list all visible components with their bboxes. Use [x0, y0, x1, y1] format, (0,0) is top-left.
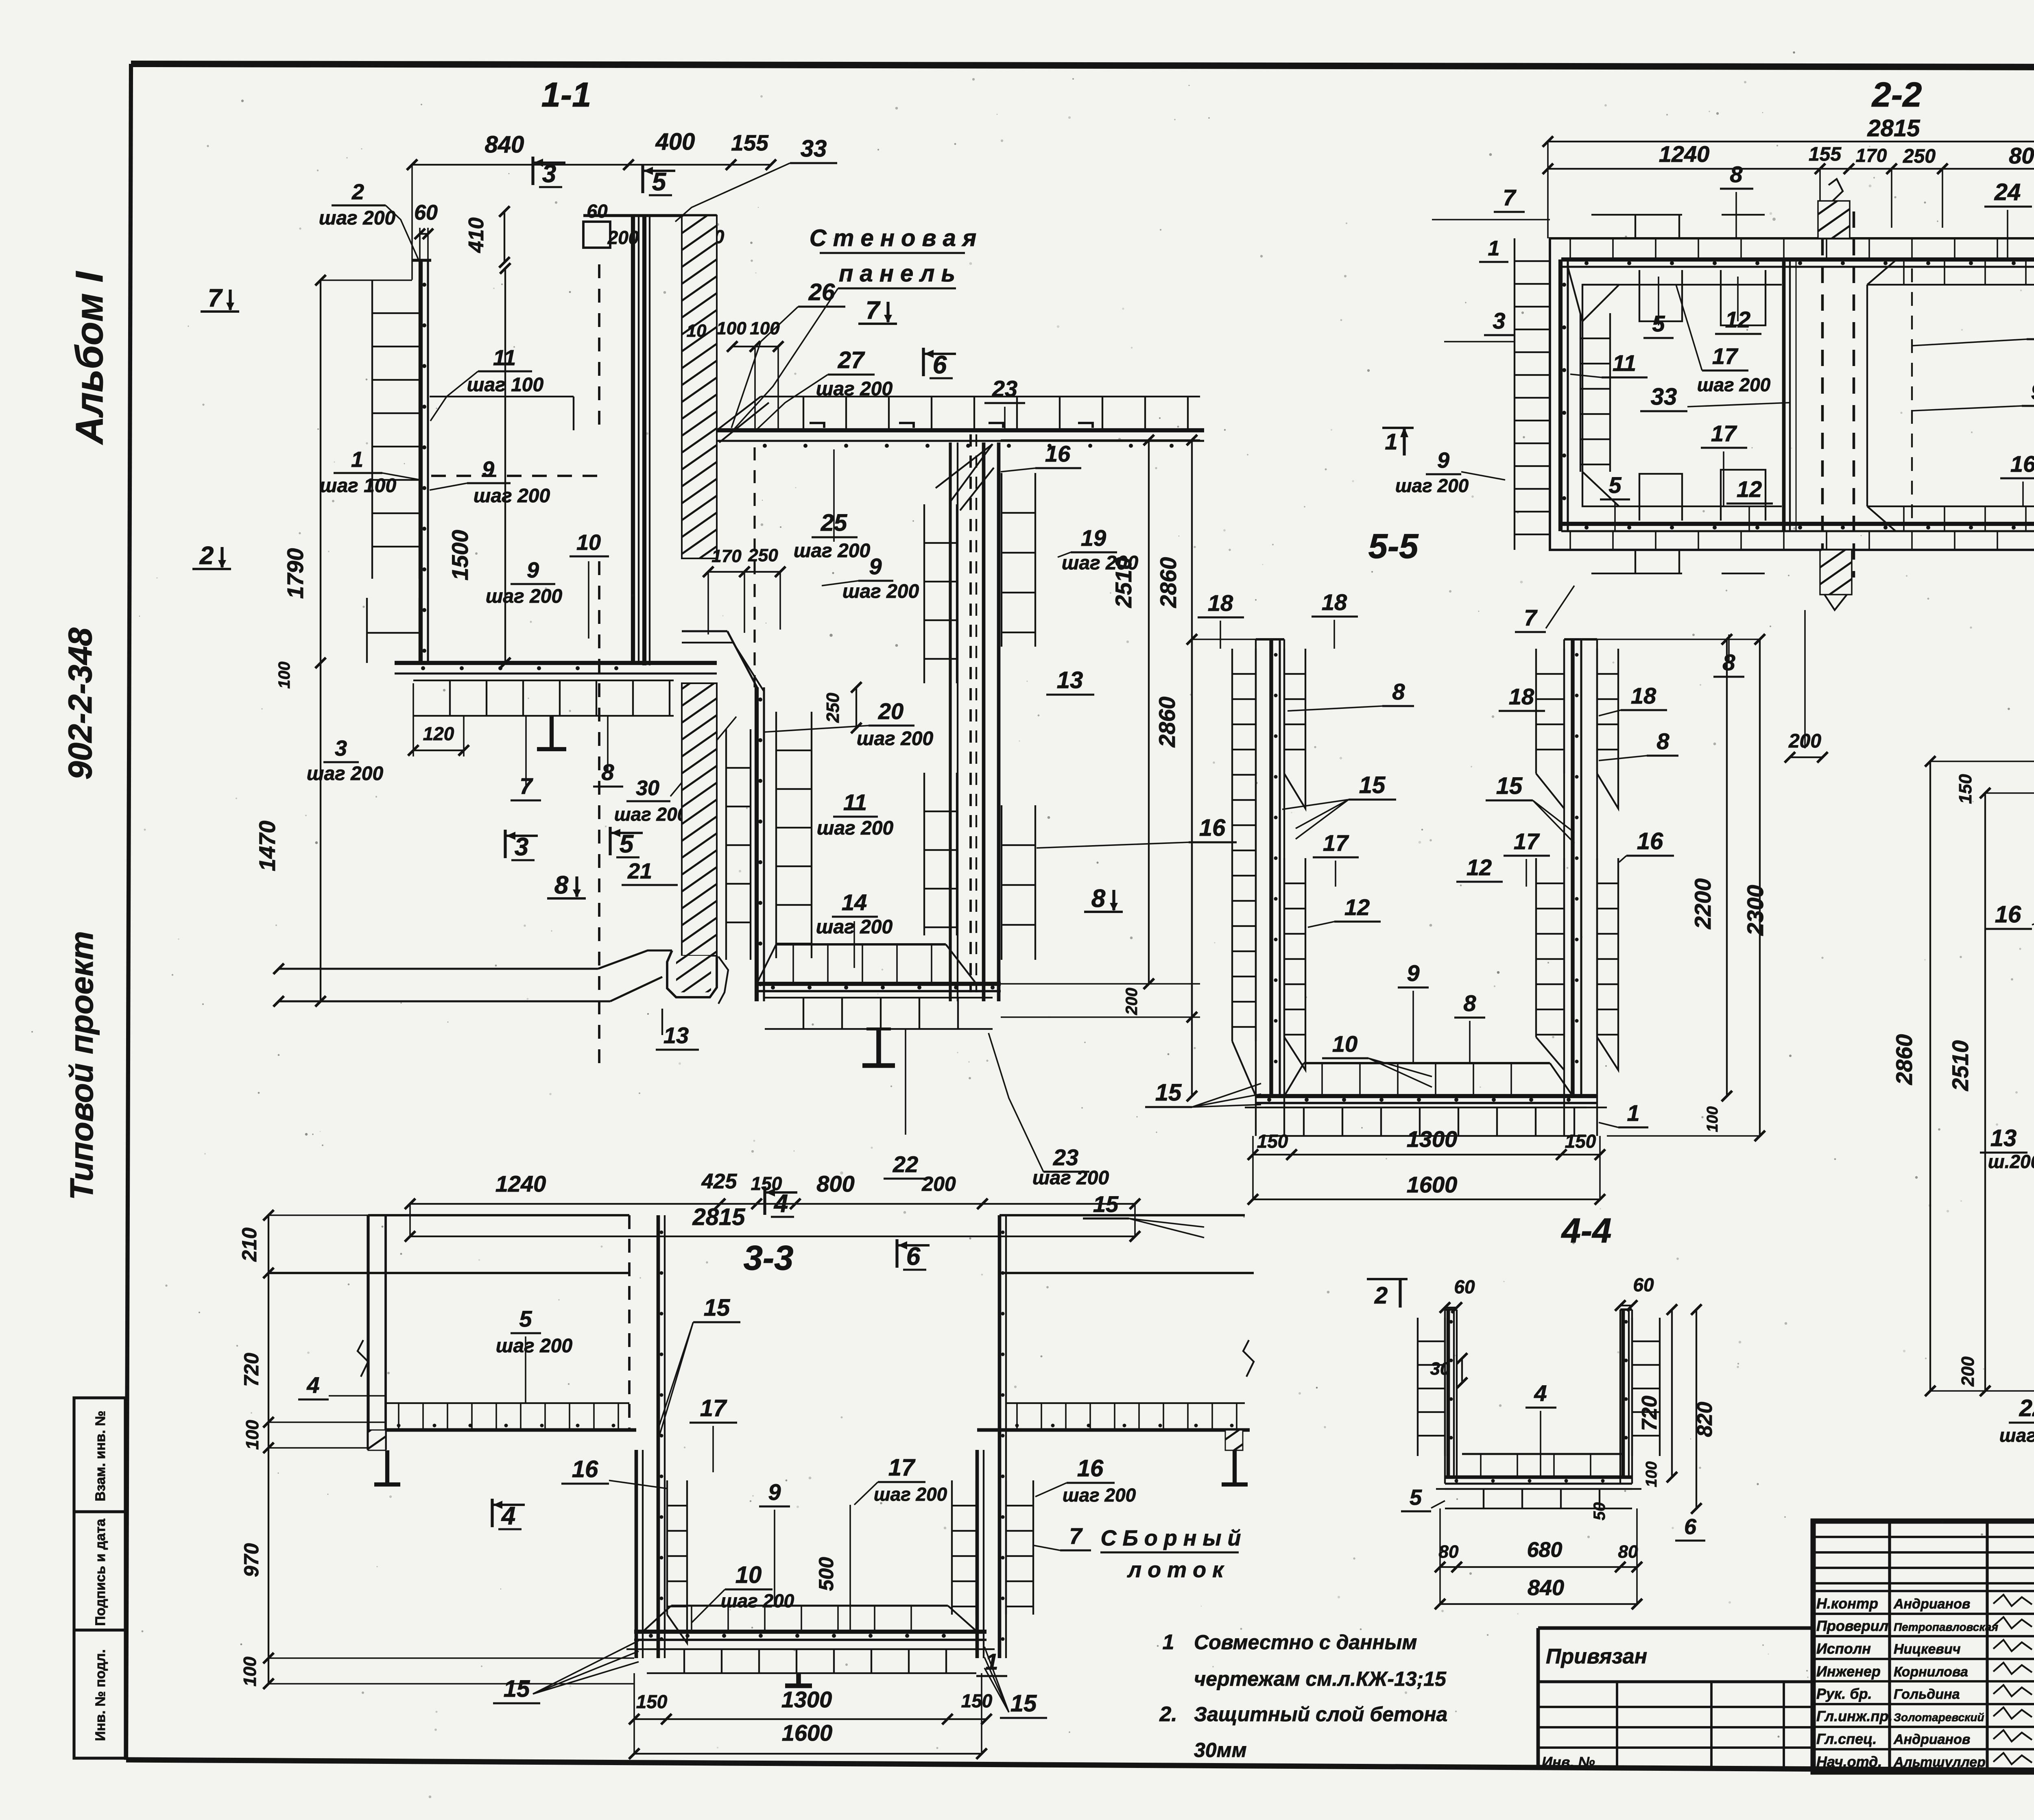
svg-text:3-3: 3-3	[744, 1239, 794, 1277]
svg-text:680: 680	[1527, 1538, 1563, 1562]
svg-text:12: 12	[1344, 894, 1370, 920]
svg-text:9: 9	[768, 1479, 781, 1505]
svg-text:шаг 200: шаг 200	[842, 581, 919, 602]
svg-text:50: 50	[1591, 1502, 1608, 1521]
svg-text:425: 425	[701, 1170, 738, 1193]
svg-text:150: 150	[961, 1690, 993, 1711]
svg-text:15: 15	[504, 1676, 530, 1702]
svg-text:л о т о к: л о т о к	[1127, 1558, 1225, 1582]
svg-text:Гл.инж.пр.: Гл.инж.пр.	[1816, 1708, 1892, 1724]
svg-text:16: 16	[1045, 441, 1071, 466]
svg-text:12: 12	[1737, 476, 1762, 502]
svg-text:3: 3	[515, 833, 528, 861]
svg-text:7: 7	[1524, 605, 1538, 630]
svg-text:Подпись и дата: Подпись и дата	[93, 1518, 108, 1626]
svg-text:720: 720	[240, 1353, 263, 1387]
svg-text:Петропавловская: Петропавловская	[1894, 1621, 1998, 1633]
svg-text:шаг 200: шаг 200	[1395, 475, 1469, 496]
svg-text:18: 18	[1208, 590, 1233, 616]
svg-text:17: 17	[1712, 343, 1739, 369]
svg-text:250: 250	[823, 693, 843, 723]
svg-text:12: 12	[1467, 854, 1492, 880]
svg-text:13: 13	[1990, 1125, 2017, 1151]
svg-text:7: 7	[866, 296, 881, 325]
svg-text:5: 5	[1608, 472, 1622, 498]
svg-text:155: 155	[1809, 144, 1842, 165]
svg-text:шаг 200: шаг 200	[721, 1590, 794, 1611]
svg-text:шаг 200: шаг 200	[1697, 374, 1771, 395]
svg-text:шаг 200: шаг 200	[817, 817, 894, 839]
svg-text:16: 16	[1077, 1455, 1104, 1482]
svg-text:2: 2	[351, 180, 364, 204]
svg-text:1: 1	[351, 447, 363, 472]
svg-text:4: 4	[1534, 1380, 1547, 1406]
svg-text:20: 20	[878, 698, 904, 724]
svg-text:23: 23	[992, 376, 1017, 401]
svg-text:Андрианов: Андрианов	[1893, 1732, 1970, 1747]
svg-text:23: 23	[1053, 1144, 1078, 1170]
svg-text:Альбом I: Альбом I	[68, 270, 111, 445]
svg-text:шаг 100: шаг 100	[320, 475, 397, 497]
svg-text:3: 3	[1493, 308, 1505, 333]
svg-text:Привязан: Привязан	[1546, 1645, 1647, 1668]
svg-text:шаг 200: шаг 200	[857, 728, 934, 750]
svg-text:150: 150	[1955, 774, 1975, 804]
svg-text:1600: 1600	[1407, 1172, 1458, 1197]
svg-text:Типовой проект: Типовой проект	[63, 931, 100, 1200]
svg-text:800: 800	[2009, 143, 2034, 168]
svg-text:2-2: 2-2	[1871, 76, 1922, 114]
svg-text:16: 16	[1995, 901, 2021, 928]
svg-text:2815: 2815	[1867, 115, 1920, 142]
svg-text:4-4: 4-4	[1561, 1212, 1612, 1250]
svg-text:Н.контр: Н.контр	[1816, 1595, 1878, 1612]
svg-text:9: 9	[527, 558, 539, 582]
svg-text:16: 16	[572, 1456, 598, 1482]
svg-text:4: 4	[773, 1190, 788, 1218]
svg-text:1-1: 1-1	[541, 76, 591, 114]
svg-text:80: 80	[1439, 1542, 1459, 1562]
svg-text:Проверил: Проверил	[1816, 1617, 1888, 1634]
svg-text:19: 19	[1081, 525, 1106, 551]
svg-text:С т е н о в а я: С т е н о в а я	[810, 225, 976, 251]
svg-text:2: 2	[1374, 1282, 1388, 1309]
svg-text:Инженер: Инженер	[1816, 1663, 1881, 1680]
svg-text:30: 30	[636, 776, 659, 800]
svg-text:60: 60	[1454, 1276, 1475, 1297]
svg-text:шаг 200: шаг 200	[1999, 1425, 2034, 1446]
svg-text:Корнилова: Корнилова	[1894, 1664, 1968, 1680]
svg-text:17: 17	[700, 1395, 727, 1421]
svg-text:16: 16	[1199, 815, 1226, 841]
svg-text:2510: 2510	[1947, 1040, 1973, 1092]
svg-text:2.: 2.	[1159, 1702, 1177, 1726]
svg-text:100: 100	[716, 318, 746, 338]
svg-text:7: 7	[208, 284, 223, 312]
svg-text:18: 18	[1631, 683, 1656, 708]
svg-text:5: 5	[652, 168, 667, 196]
svg-text:150: 150	[1257, 1131, 1288, 1152]
svg-text:С Б о р н ы й: С Б о р н ы й	[1101, 1526, 1241, 1550]
svg-text:2: 2	[199, 542, 214, 570]
svg-text:2510: 2510	[1111, 557, 1136, 608]
svg-text:ш.200: ш.200	[1988, 1151, 2034, 1172]
svg-text:5: 5	[620, 830, 634, 858]
svg-text:16: 16	[1637, 828, 1663, 854]
svg-text:22: 22	[2019, 1395, 2034, 1421]
svg-text:Нач.отд.: Нач.отд.	[1816, 1753, 1882, 1770]
svg-text:1: 1	[1488, 237, 1500, 260]
svg-text:10: 10	[576, 530, 601, 555]
svg-text:5-5: 5-5	[1368, 527, 1419, 566]
svg-text:шаг 200: шаг 200	[496, 1335, 573, 1357]
svg-text:2860: 2860	[1155, 557, 1181, 608]
svg-text:1: 1	[1627, 1100, 1639, 1126]
svg-text:шаг 200: шаг 200	[816, 378, 893, 400]
svg-text:шаг 200: шаг 200	[794, 540, 871, 562]
svg-text:840: 840	[485, 131, 524, 158]
svg-text:720: 720	[1638, 1396, 1661, 1431]
svg-text:Взам. инв. №: Взам. инв. №	[93, 1410, 108, 1501]
svg-text:14: 14	[842, 889, 867, 915]
svg-text:33: 33	[1651, 384, 1677, 410]
svg-text:1300: 1300	[781, 1687, 832, 1712]
svg-text:17: 17	[1711, 421, 1737, 446]
svg-text:170: 170	[711, 546, 742, 566]
svg-text:8: 8	[554, 871, 569, 899]
svg-text:2300: 2300	[1742, 885, 1768, 936]
svg-text:Защитный слой бетона: Защитный слой бетона	[1194, 1703, 1447, 1726]
svg-text:9: 9	[2031, 379, 2034, 404]
svg-text:9: 9	[869, 554, 882, 579]
svg-text:шаг 200: шаг 200	[614, 804, 688, 825]
svg-text:3: 3	[542, 160, 556, 188]
svg-text:1300: 1300	[1407, 1126, 1458, 1152]
svg-text:Альтшуллер: Альтшуллер	[1893, 1755, 1986, 1770]
svg-text:30мм: 30мм	[1194, 1739, 1247, 1761]
svg-text:100: 100	[275, 662, 293, 689]
svg-text:5: 5	[1410, 1485, 1422, 1510]
svg-text:155: 155	[731, 130, 769, 155]
svg-text:17: 17	[1514, 828, 1540, 854]
svg-text:4: 4	[306, 1372, 319, 1398]
svg-text:11: 11	[843, 789, 867, 815]
svg-text:9: 9	[482, 457, 494, 482]
svg-text:60: 60	[414, 201, 438, 225]
svg-text:60: 60	[587, 201, 608, 222]
svg-text:шаг 200: шаг 200	[1063, 1484, 1136, 1506]
svg-text:1240: 1240	[495, 1171, 546, 1197]
svg-text:27: 27	[838, 347, 865, 373]
svg-text:15: 15	[1359, 772, 1386, 798]
svg-text:шаг 200: шаг 200	[307, 763, 384, 785]
svg-text:120: 120	[423, 723, 454, 744]
svg-text:5: 5	[519, 1306, 532, 1332]
svg-text:1500: 1500	[447, 530, 473, 581]
svg-text:2200: 2200	[1690, 878, 1715, 930]
svg-text:2860: 2860	[1154, 697, 1180, 748]
svg-text:17: 17	[888, 1454, 916, 1481]
svg-text:1470: 1470	[254, 821, 280, 872]
svg-text:Андрианов: Андрианов	[1893, 1596, 1970, 1612]
svg-text:24: 24	[1994, 179, 2021, 205]
svg-text:902-2-348: 902-2-348	[62, 628, 99, 780]
svg-text:Ницкевич: Ницкевич	[1894, 1641, 1961, 1657]
svg-text:13: 13	[1057, 667, 1083, 693]
svg-text:Рук. бр.: Рук. бр.	[1816, 1685, 1872, 1702]
svg-text:Совместно с данным: Совместно с данным	[1194, 1631, 1417, 1654]
svg-text:18: 18	[1509, 684, 1534, 709]
svg-text:8: 8	[1091, 885, 1106, 913]
svg-text:15: 15	[1155, 1079, 1182, 1106]
svg-text:150: 150	[636, 1691, 668, 1712]
svg-text:410: 410	[465, 218, 488, 253]
svg-text:10: 10	[1332, 1031, 1357, 1057]
svg-text:820: 820	[1693, 1402, 1717, 1437]
svg-text:17: 17	[1323, 830, 1349, 856]
svg-text:1: 1	[985, 1649, 998, 1674]
svg-text:9: 9	[1437, 448, 1449, 473]
svg-text:200: 200	[921, 1173, 956, 1195]
svg-text:1: 1	[1163, 1630, 1174, 1654]
svg-text:чертежам см.л.КЖ-13;15: чертежам см.л.КЖ-13;15	[1194, 1667, 1447, 1690]
svg-text:970: 970	[240, 1543, 263, 1577]
svg-text:400: 400	[655, 129, 695, 155]
svg-text:30: 30	[1430, 1359, 1450, 1379]
svg-text:Исполн: Исполн	[1816, 1640, 1871, 1657]
svg-text:Инв. № подл.: Инв. № подл.	[93, 1649, 108, 1741]
svg-text:шаг 200: шаг 200	[1032, 1167, 1109, 1189]
svg-text:8: 8	[1730, 161, 1743, 187]
svg-text:8: 8	[1392, 679, 1405, 704]
svg-text:4: 4	[501, 1502, 515, 1530]
svg-text:8: 8	[1463, 990, 1476, 1016]
svg-text:60: 60	[1633, 1274, 1654, 1295]
svg-text:Гольдина: Гольдина	[1894, 1687, 1960, 1702]
svg-text:80: 80	[1618, 1542, 1638, 1562]
svg-text:1240: 1240	[1659, 141, 1710, 167]
svg-text:22: 22	[893, 1151, 918, 1177]
svg-text:10: 10	[687, 321, 707, 341]
svg-text:18: 18	[1322, 589, 1347, 615]
svg-text:п а н е л ь: п а н е л ь	[839, 260, 955, 287]
svg-text:Золотаревский: Золотаревский	[1894, 1711, 1984, 1724]
svg-text:Гл.спец.: Гл.спец.	[1816, 1731, 1877, 1747]
svg-text:250: 250	[1903, 146, 1936, 167]
svg-text:15: 15	[1093, 1191, 1119, 1217]
svg-text:1600: 1600	[782, 1720, 833, 1746]
svg-text:26: 26	[808, 279, 835, 305]
svg-text:15: 15	[704, 1295, 730, 1321]
svg-text:3: 3	[335, 736, 347, 761]
svg-text:шаг 200: шаг 200	[474, 485, 550, 507]
svg-text:500: 500	[815, 1557, 838, 1591]
svg-text:16: 16	[2010, 451, 2034, 477]
svg-text:210: 210	[238, 1227, 261, 1262]
svg-text:6: 6	[1684, 1515, 1697, 1539]
svg-text:2815: 2815	[692, 1204, 745, 1230]
svg-text:250: 250	[748, 545, 778, 565]
svg-text:200: 200	[1123, 988, 1141, 1016]
svg-text:шаг 200: шаг 200	[486, 586, 563, 607]
svg-text:Инв. №: Инв. №	[1542, 1754, 1595, 1770]
svg-text:шаг 200: шаг 200	[319, 207, 396, 229]
svg-text:15: 15	[1010, 1690, 1037, 1717]
svg-text:2860: 2860	[1891, 1034, 1917, 1085]
svg-text:840: 840	[1528, 1576, 1564, 1600]
svg-text:800: 800	[816, 1171, 854, 1197]
svg-text:7: 7	[1069, 1523, 1083, 1549]
svg-text:15: 15	[1496, 773, 1523, 799]
svg-text:21: 21	[627, 859, 652, 883]
svg-text:6: 6	[933, 351, 947, 379]
svg-text:100: 100	[1704, 1106, 1721, 1132]
svg-text:170: 170	[1856, 145, 1887, 166]
svg-text:100: 100	[240, 1657, 260, 1687]
svg-text:6: 6	[906, 1242, 921, 1271]
svg-text:8: 8	[1656, 728, 1670, 754]
svg-text:10: 10	[735, 1562, 762, 1588]
svg-text:1790: 1790	[282, 548, 308, 599]
svg-text:1: 1	[1385, 429, 1397, 454]
svg-text:13: 13	[663, 1022, 689, 1048]
svg-text:200: 200	[1958, 1356, 1978, 1387]
svg-text:9: 9	[1407, 960, 1419, 986]
svg-text:шаг 200: шаг 200	[874, 1484, 947, 1505]
svg-text:150: 150	[1565, 1131, 1596, 1152]
svg-text:33: 33	[801, 135, 827, 162]
svg-text:7: 7	[1503, 185, 1517, 210]
svg-text:11: 11	[1613, 350, 1636, 376]
svg-text:100: 100	[242, 1420, 262, 1450]
